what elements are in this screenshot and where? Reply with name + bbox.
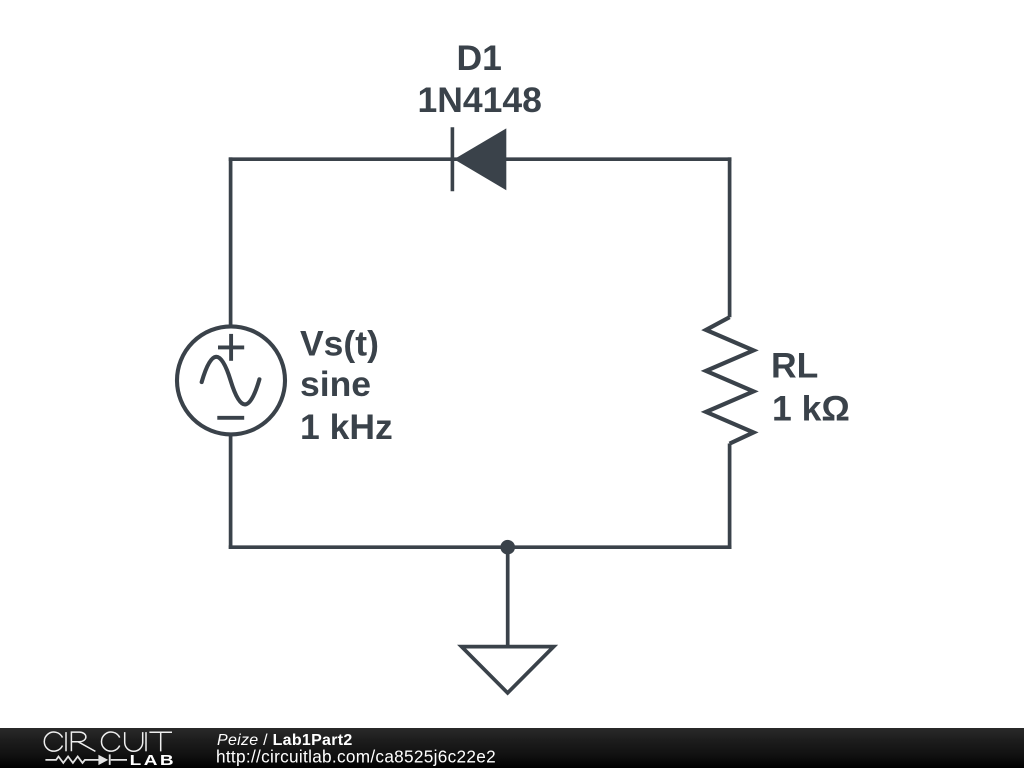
T (149, 732, 172, 751)
node junction dot (500, 540, 515, 555)
svg-text:1N4148: 1N4148 (418, 80, 542, 120)
diode D1 (452, 127, 506, 191)
svg-text:RL: RL (771, 346, 818, 386)
U (125, 732, 143, 751)
logo CIRCUIT word (44, 732, 172, 751)
svg-text:Vs(t): Vs(t) (300, 323, 379, 363)
svg-text:1 kΩ: 1 kΩ (772, 389, 850, 429)
ground (462, 647, 554, 693)
I (65, 732, 67, 751)
wire bottom (bottom-left corner to bottom-right corner) (229, 545, 732, 549)
logo diode triangle (98, 755, 108, 765)
footer bar (0, 728, 1024, 768)
svg-text:1 kHz: 1 kHz (300, 407, 393, 447)
resistor RL (706, 317, 754, 443)
wire left lower (source to bottom-left corner) (229, 434, 233, 549)
svg-text:LAB: LAB (130, 751, 177, 768)
svg-text:http://circuitlab.com/ca8525j6: http://circuitlab.com/ca8525j6c22e2 (216, 747, 496, 767)
svg-text:D1: D1 (457, 38, 502, 78)
I (145, 732, 147, 751)
wire right upper (top-right corner to resistor) (728, 157, 732, 317)
C (101, 732, 119, 751)
wire top (top-left corner to top-right corner through diode) (229, 157, 732, 161)
wire ground stub (506, 547, 510, 646)
voltage source VS1 (177, 326, 285, 434)
C (44, 732, 62, 751)
svg-text:sine: sine (300, 364, 371, 404)
logo resistor-diode squiggle (45, 754, 127, 765)
wire left upper (source to top-left corner) (229, 157, 233, 327)
R (71, 732, 95, 751)
wire right lower (resistor to bottom-right corner) (728, 444, 732, 550)
